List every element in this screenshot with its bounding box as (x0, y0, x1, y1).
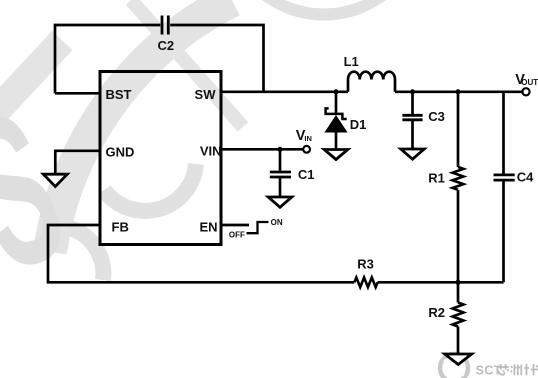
svg-text:C2: C2 (158, 38, 175, 53)
svg-text:GND: GND (106, 145, 135, 160)
svg-text:SW: SW (195, 87, 217, 102)
svg-text:R2: R2 (428, 305, 445, 320)
svg-text:OUT: OUT (521, 78, 538, 87)
svg-text:L1: L1 (344, 54, 359, 69)
svg-text:R1: R1 (428, 171, 445, 186)
svg-text:EN: EN (199, 220, 217, 235)
svg-text:IN: IN (304, 134, 312, 143)
svg-text:R3: R3 (357, 257, 374, 272)
svg-text:VIN: VIN (200, 144, 222, 159)
svg-text:D1: D1 (350, 117, 367, 132)
svg-text:C3: C3 (428, 109, 445, 124)
svg-text:SCT: SCT (476, 363, 502, 377)
svg-text:ON: ON (271, 218, 283, 227)
svg-text:BST: BST (106, 87, 132, 102)
svg-text:C1: C1 (298, 167, 315, 182)
svg-text:FB: FB (112, 220, 129, 235)
svg-text:C4: C4 (517, 170, 534, 185)
svg-text:OFF: OFF (229, 230, 245, 239)
